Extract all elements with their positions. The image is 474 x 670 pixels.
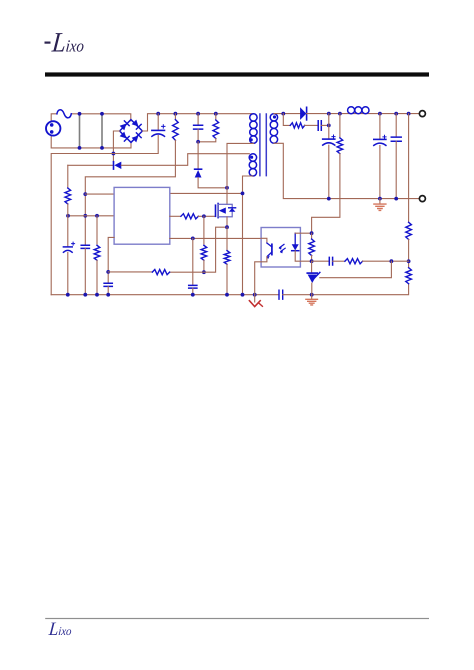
wire opto collector [261,238,267,243]
bridge diode D-d [132,133,142,143]
wire IC vcc to aux [170,192,243,194]
light arrows of U2 [280,244,286,251]
transformer T1 aux winding [249,154,256,161]
optocoupler U2 [261,228,300,268]
wire primary bottom to MOSFET drain [227,143,253,204]
capacitor C10 output electrolytic [379,114,381,140]
transformer T1 secondary winding [270,114,277,121]
resistor R9 secondary snubber [283,114,290,126]
capacitor CX1 [79,114,81,148]
resistor R3 [67,165,69,188]
wire bridge - output down [113,131,119,162]
node aux phase dot [250,156,253,159]
terminal output minus [419,196,425,202]
wire aux bottom return [243,176,253,295]
wire LED anode [295,232,311,234]
transformer T1 primary winding [250,114,257,121]
inductor L1 [348,107,355,114]
resistor R7 current sense [226,227,228,250]
capacitor C7 [192,238,194,285]
wire AC neutral bottom rail [51,136,131,148]
diode D2 clamp [197,142,199,169]
node primary phase dot [250,138,253,141]
resistor R12 divider bottom [406,268,412,284]
wire IC CS pin [108,237,114,283]
wire D1 anode to aux winding [121,154,249,166]
wire DC minus to primary ground [51,154,113,295]
bridge diode D-a [120,121,130,131]
wire IC pin left top [85,193,114,195]
resistor R4 snubber [215,114,217,120]
wire bulk cap return [113,135,158,153]
resistor R11 divider top [406,222,412,239]
terminal output plus [419,111,425,117]
header rule [45,72,429,76]
footer logo Lixo script [47,618,73,639]
node DC rail junctions [156,112,160,116]
transformer T1 core [260,114,266,176]
AC source G1 [46,121,60,135]
node CX top junctions [78,112,82,116]
wire primary ground rail [51,294,279,296]
diode body of Q1 [229,207,236,209]
footer rule [45,618,429,619]
capacitor C2 [81,245,89,248]
capacitor CX2 [101,114,103,148]
capacitor C8 secondary snubber [305,124,318,126]
bridge diode D-b [132,120,142,130]
ground earth output [379,199,381,204]
capacitor C6 [104,283,112,286]
resistor R1 startup [174,114,176,120]
resistor R13 bias [311,233,313,239]
resistor R14 compensation [333,260,345,262]
header logo dash [45,42,51,44]
node primary ground junctions [66,293,70,297]
transistor Q1 MOSFET [215,205,217,216]
node secondary phase dot [273,115,276,118]
resistor R8 [108,271,152,273]
transistor of U2 [271,244,273,254]
wire TL431 ref [320,261,392,278]
resistor R10 led feed [339,114,341,138]
capacitor C9 output electrolytic [328,114,330,139]
regulator U3 TL431 [311,261,313,273]
wire startup resistor to VD pin [85,140,175,245]
wire secondary top to output diode [274,113,300,115]
diode LED of U2 [294,233,296,244]
diode D3 output rectifier [300,107,306,120]
wire AC line top to bridge [51,114,131,122]
wire output positive rail [307,113,420,115]
wire IC FB pin to optocoupler [170,237,261,239]
wire bridge + output to DC rail [142,114,253,131]
capacitor CY1 [279,290,283,299]
resistor R5 gate [170,215,181,217]
wire opto emitter [261,257,267,262]
wire IC pin left mid [68,215,114,217]
op-amp U1 control IC [114,187,170,244]
capacitor C1 bulk electrolytic [157,114,159,131]
fuse F1 [57,110,71,118]
node pin junctions on left column [83,192,87,196]
ground earth secondary [311,295,313,299]
resistor R6 gate pulldown [203,216,205,245]
capacitor C5 snubber [197,114,199,126]
bridge rectifier BR1 [120,120,143,143]
node bridge minus junction [112,152,116,156]
node CX bottom junctions [78,146,82,150]
wire secondary ground rail [283,284,409,295]
resistor R2 [96,216,98,246]
ground hot primary [254,295,256,302]
capacitor C12 compensation [312,260,330,262]
wire Q1 source [170,217,227,272]
header logo Lixo script [50,26,86,58]
capacitor C11 [395,114,397,137]
diode D1 vcc rectifier [68,164,113,166]
wire feedback sense [408,114,410,223]
capacitor C4 electrolytic [63,246,72,248]
bridge diode D-c [120,132,130,142]
wire output minus rail [274,143,419,198]
